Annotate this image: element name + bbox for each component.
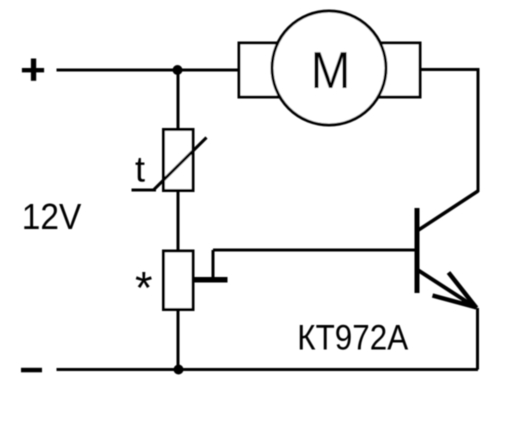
transistor VT1 emitter lead — [417, 270, 477, 309]
svg-text:t: t — [135, 149, 145, 190]
wire base horizontal from wiper to transistor base — [213, 249, 415, 252]
transistor VT1 collector lead — [417, 191, 478, 231]
wire collector vertical — [477, 68, 480, 192]
transistor VT1 emitter arrow barb upper — [449, 273, 477, 309]
wire right-top from motor right brush to collector corner — [419, 68, 478, 71]
transistor VT1 emitter arrow barb lower — [433, 296, 476, 308]
wire vertical junction to thermistor top — [177, 70, 180, 130]
wire potentiometer bottom to minus rail — [177, 309, 180, 370]
motor M1 left brush — [239, 43, 287, 97]
motor M1 right brush — [371, 43, 420, 97]
transistor VT1 emitter arrow tip fill — [461, 299, 478, 309]
wire wiper vertical — [212, 250, 215, 279]
wire top horizontal from + rail to motor left brush — [57, 69, 241, 72]
wire emitter vertical to minus rail — [476, 308, 479, 370]
thermistor RK1 foot — [132, 189, 157, 192]
potentiometer R1 wiper bar — [193, 277, 228, 283]
junction node top — [173, 65, 183, 75]
svg-text:12V: 12V — [22, 198, 82, 237]
potentiometer R1 body — [164, 251, 194, 310]
minus terminal symbol — [21, 368, 42, 373]
thermistor RK1 diagonal strike — [154, 138, 207, 190]
transistor VT1 base bar — [415, 208, 420, 293]
svg-text:*: * — [135, 262, 153, 313]
wire thermistor bottom to potentiometer top — [177, 190, 180, 252]
wire bottom horizontal minus rail — [57, 368, 479, 371]
motor M1 body circle — [272, 11, 386, 125]
plus terminal symbol — [22, 59, 44, 81]
junction node bottom — [174, 365, 184, 375]
thermistor RK1 body — [164, 130, 194, 191]
svg-text:КТ972А: КТ972А — [297, 319, 408, 358]
svg-text:M: M — [311, 41, 351, 99]
